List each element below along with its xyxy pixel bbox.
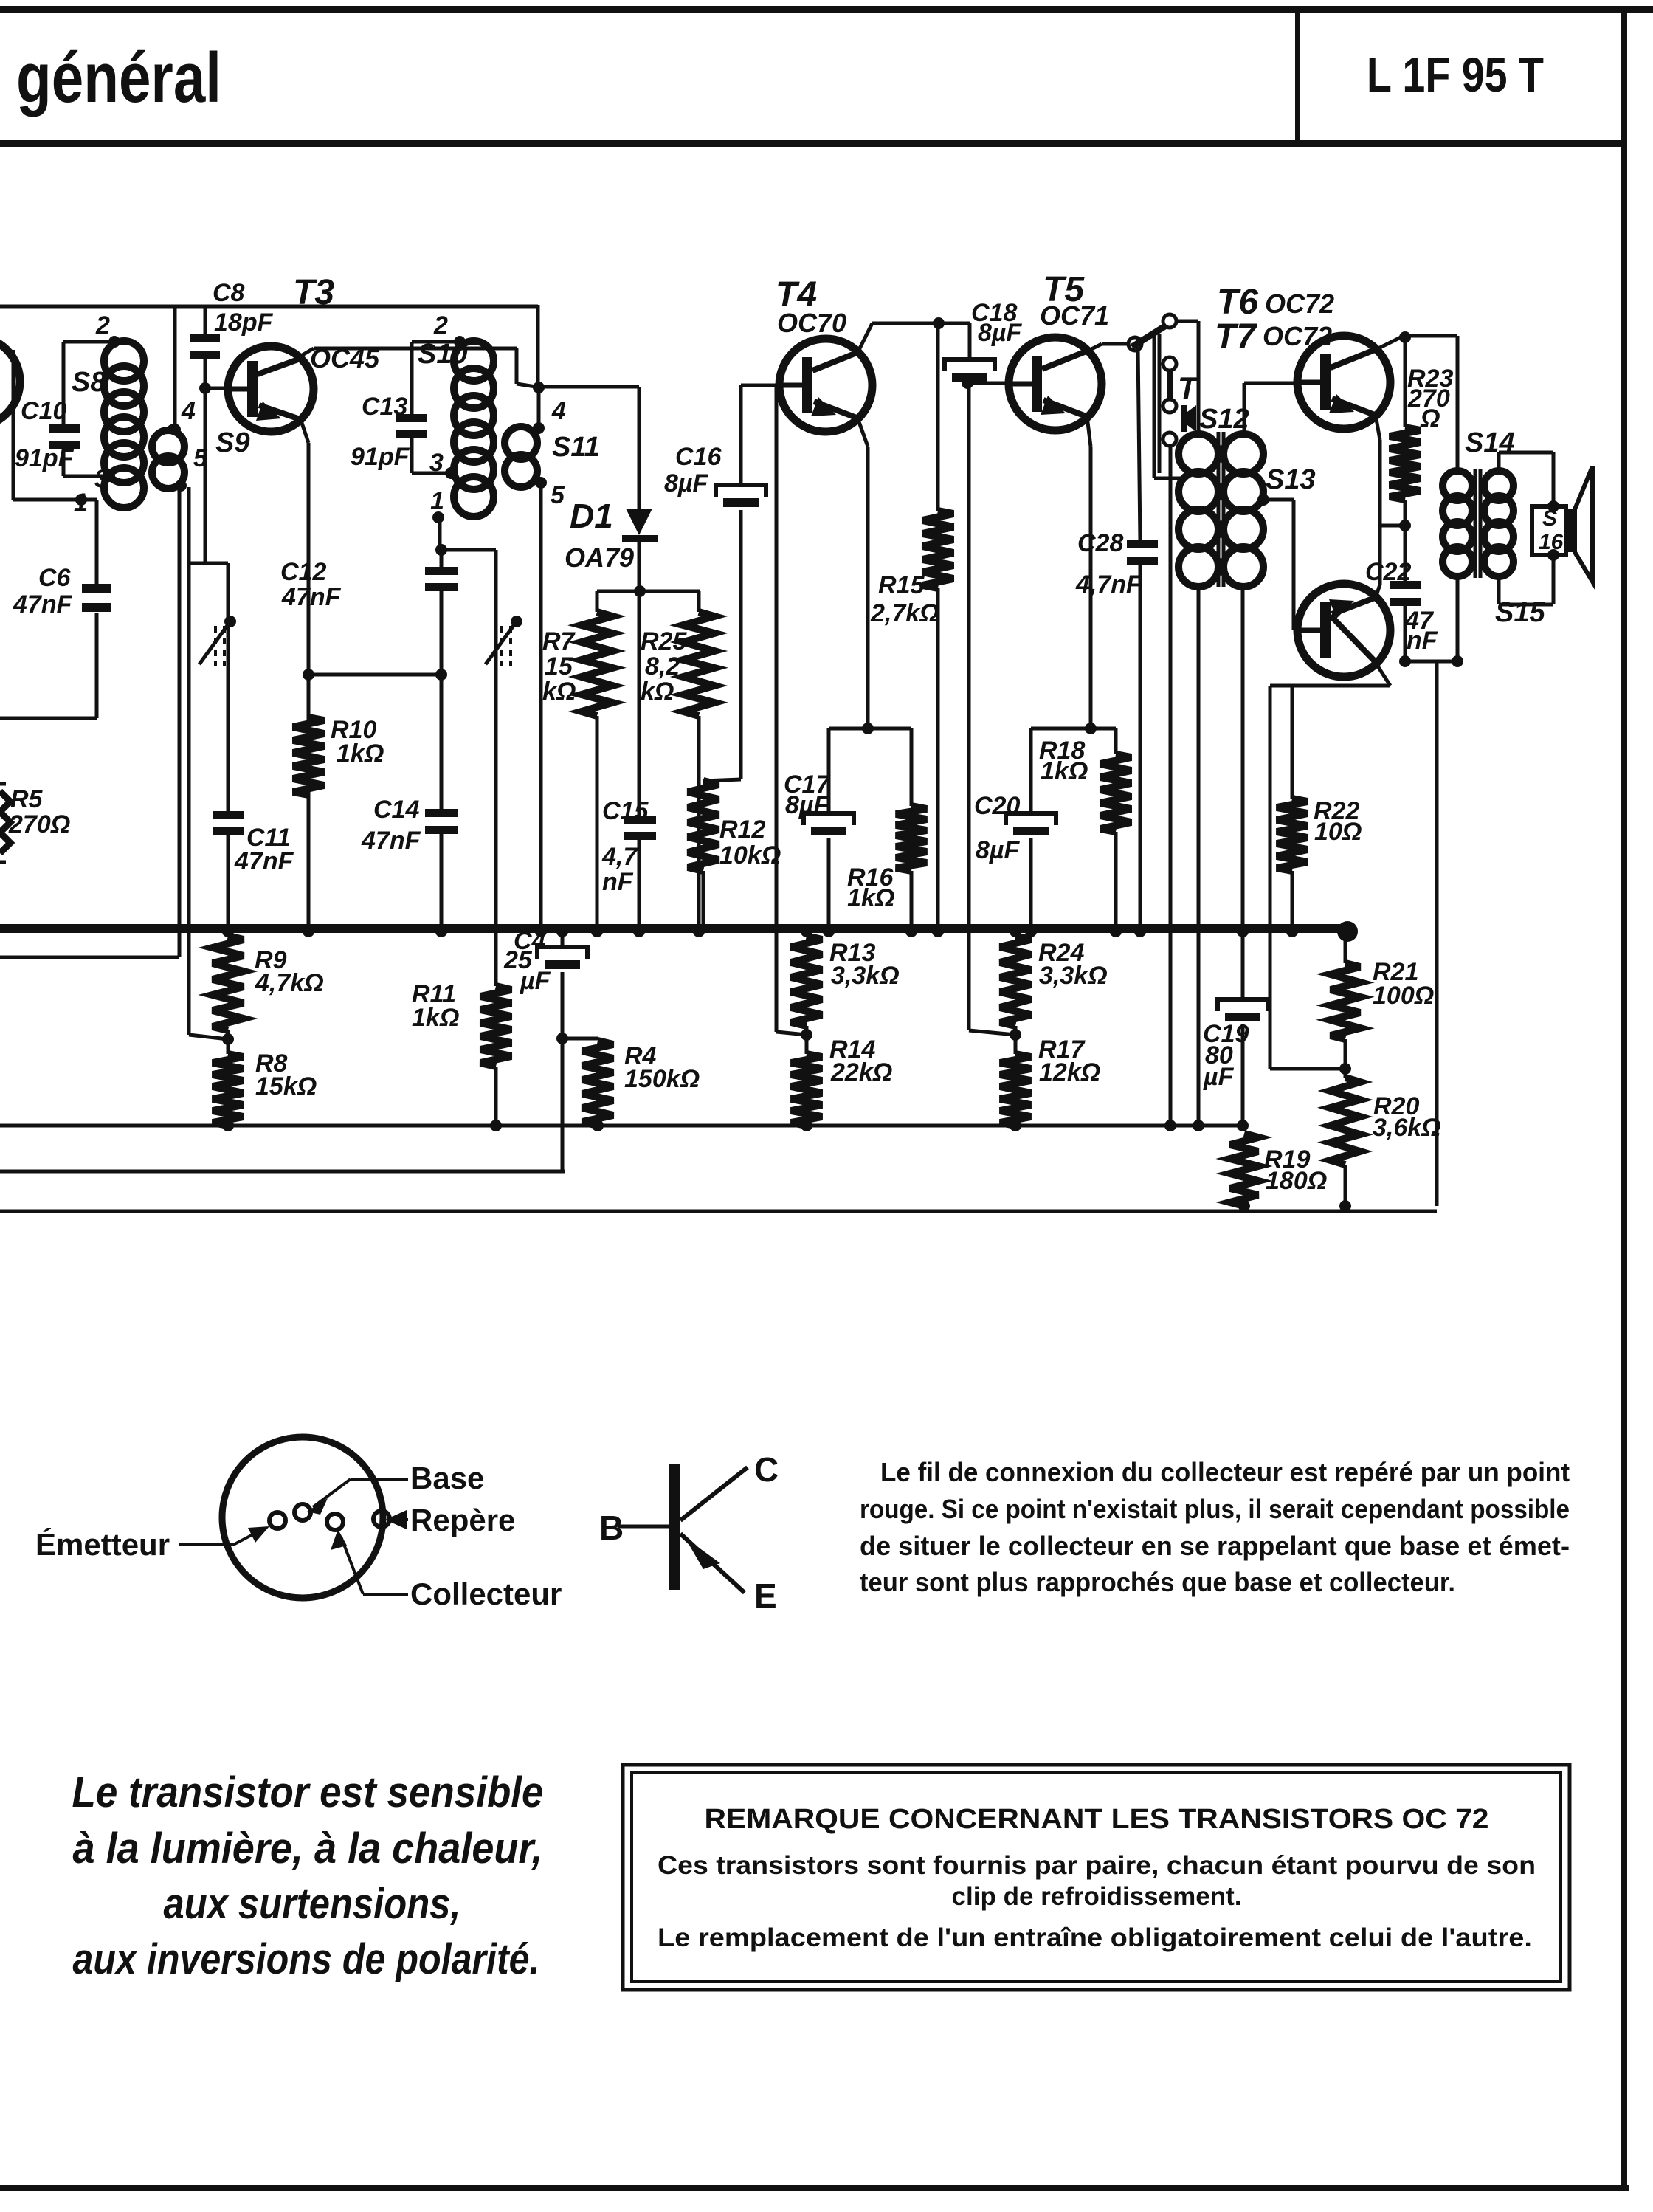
node R23 bottom junction: [1399, 520, 1411, 531]
wire C16 hook to R12: [703, 779, 741, 781]
label B: [599, 1509, 624, 1547]
label C10 value 91pF: [15, 444, 75, 472]
switch contact left: [1128, 337, 1142, 351]
resistor R17: [1000, 1054, 1031, 1126]
svg-text:C22: C22: [1365, 558, 1411, 586]
node S10 pin3: [445, 467, 457, 479]
label C10: [21, 397, 66, 425]
remark box: [623, 1765, 1570, 1990]
transistor T5: [1009, 337, 1102, 430]
wire S14 top lead: [1456, 336, 1460, 472]
svg-text:E: E: [754, 1577, 777, 1615]
node R23 top: [1399, 331, 1411, 343]
label T3: [293, 273, 334, 312]
wire C22 bottom: [1404, 606, 1407, 661]
resistor R14: [791, 1054, 822, 1126]
transformer S9 secondary coil: [152, 427, 184, 489]
wire R25 top lead: [697, 591, 701, 612]
node jack bottom: [1164, 1120, 1176, 1131]
label R18 value 1kOhm: [1041, 757, 1088, 785]
page bottom border: [0, 2185, 1629, 2191]
svg-text:µF: µF: [1203, 1063, 1235, 1091]
label S8 pin1: [74, 489, 88, 517]
label T5 type OC71: [1040, 300, 1109, 331]
svg-text:S11: S11: [552, 432, 600, 463]
jack contact bar: [1167, 370, 1173, 401]
symbol emitter lead: [680, 1534, 745, 1593]
node S8 pin2: [108, 336, 120, 348]
bottom rail 2: [0, 1170, 565, 1174]
wire S13 bottom down: [1241, 587, 1245, 999]
symbol collector lead: [680, 1467, 748, 1520]
svg-text:teur sont plus rapprochés que: teur sont plus rapprochés que base et co…: [860, 1567, 1455, 1597]
node C20 bus: [1025, 926, 1037, 937]
wire D1 bottom: [638, 542, 641, 591]
svg-text:4: 4: [551, 397, 566, 425]
svg-text:OC71: OC71: [1040, 300, 1109, 331]
label T4: [776, 275, 817, 314]
wire C20 bottom to bus: [1029, 838, 1033, 928]
transformer S13 secondary coil: [1224, 434, 1263, 587]
wire T4 emitter: [857, 418, 868, 728]
wire C15 bottom to bus: [638, 840, 641, 928]
transistor T3: [228, 346, 314, 432]
wire T6 collector: [1376, 336, 1457, 350]
label C18: [971, 299, 1017, 327]
resistor R25: [683, 612, 714, 716]
wire jack frame: [1154, 334, 1181, 478]
svg-text:Collecteur: Collecteur: [410, 1577, 562, 1611]
label T6 type OC72: [1265, 289, 1334, 319]
label R21: [1373, 958, 1418, 986]
wire AVC line: [189, 562, 228, 565]
label R20 value 3,6k: [1373, 1114, 1441, 1142]
paragraph line 3: [860, 1531, 1570, 1561]
node R25 bus: [693, 926, 705, 937]
label C19 value 80: [1205, 1041, 1233, 1069]
wire S10 box top: [412, 340, 460, 344]
wire T5 base divider drop: [967, 383, 971, 1030]
title general: [16, 38, 221, 117]
svg-text:180Ω: 180Ω: [1266, 1167, 1327, 1195]
transformer S10 primary coil: [454, 341, 494, 517]
wire R7 top lead: [596, 591, 599, 612]
svg-text:8,2: 8,2: [645, 652, 680, 681]
wire C16 top lead: [739, 385, 743, 485]
label C15 value nF: [602, 868, 634, 896]
model number L 1F 95 T: [1367, 47, 1544, 102]
resistor R19: [1230, 1134, 1258, 1206]
node S11 pin5 bus: [535, 926, 547, 937]
wire R23 top lead: [1404, 337, 1407, 427]
transformer S11 secondary coil: [505, 427, 537, 487]
label R11: [412, 980, 456, 1008]
label Repere: [410, 1503, 515, 1537]
label C11 value 47nF: [234, 847, 294, 875]
svg-text:10kΩ: 10kΩ: [719, 841, 781, 869]
wire R7 bottom to bus: [596, 716, 599, 928]
svg-text:8µF: 8µF: [664, 469, 708, 497]
wire C19 bottom: [1241, 1024, 1245, 1126]
wire C11 bottom to bus: [227, 835, 230, 928]
wire C4 to R4: [562, 1037, 598, 1041]
wire C4 bottom: [561, 972, 565, 1171]
jack contact b: [1163, 399, 1176, 413]
label R25: [641, 627, 687, 655]
node R4 bottom: [592, 1120, 604, 1131]
wire C11 top lead: [227, 563, 230, 813]
remark title: [705, 1804, 1489, 1835]
svg-text:Émetteur: Émetteur: [35, 1527, 170, 1562]
capacitor C8: [190, 334, 220, 359]
resistor R8: [213, 1054, 244, 1126]
wire C15 column: [638, 591, 641, 818]
label C4 value 25: [503, 946, 533, 974]
label C19: [1203, 1020, 1249, 1048]
node C19 bottom: [1237, 1120, 1249, 1131]
label D1: [570, 497, 613, 535]
node R14 bottom: [801, 1120, 812, 1131]
node R11 bottom: [490, 1120, 502, 1131]
header bottom rule: [0, 140, 1621, 147]
wire T5 collector: [1087, 344, 1129, 351]
resistor R15: [922, 511, 953, 588]
wire T4 base divider drop: [775, 385, 779, 1032]
svg-text:270Ω: 270Ω: [8, 810, 70, 838]
wire S14 bottom lead: [1456, 576, 1460, 661]
wire C17 top lead: [827, 728, 831, 813]
label C12 value 47nF: [281, 583, 342, 611]
svg-text:général: général: [16, 38, 221, 117]
header divider: [1295, 12, 1300, 145]
label R7: [542, 627, 576, 655]
node R13 R14 junction: [801, 1029, 812, 1041]
svg-text:1kΩ: 1kΩ: [1041, 757, 1088, 785]
transformer core S12 S13: [1218, 432, 1224, 587]
wire T4 collector: [857, 323, 970, 353]
capacitor C15: [624, 816, 656, 840]
wire R13 R14 link: [805, 1026, 809, 1054]
svg-text:C6: C6: [38, 564, 72, 592]
wire C8 top lead: [204, 306, 207, 334]
transformer core S14 S15: [1475, 469, 1480, 578]
loudspeaker horn: [1566, 466, 1592, 582]
trimmer core S8: [199, 616, 236, 666]
node T3 emitter bus: [303, 926, 314, 937]
node R19 bottom: [1238, 1200, 1250, 1212]
symbol transistor bar: [669, 1464, 680, 1590]
node R20 bottom: [1339, 1200, 1351, 1212]
jack contact c: [1163, 433, 1176, 446]
label R12: [719, 816, 765, 844]
svg-text:Le remplacement de l'un e: Le remplacement de l'un entraîne obligat…: [658, 1923, 1532, 1952]
pointer Collecteur: [331, 1529, 408, 1594]
svg-text:4: 4: [181, 397, 196, 425]
label R17 value 12k: [1039, 1058, 1100, 1086]
pointer Repere: [385, 1510, 408, 1529]
label R13: [829, 939, 875, 967]
label R4: [624, 1042, 657, 1070]
svg-text:clip de refroidissement.: clip de refroidissement.: [952, 1882, 1242, 1911]
wire C18 top lead: [968, 323, 972, 359]
label S9: [215, 427, 249, 458]
node R17 bottom: [1010, 1120, 1021, 1131]
label C11: [246, 824, 291, 852]
label R20: [1373, 1092, 1419, 1120]
capacitor C14: [425, 809, 458, 834]
wire S10 box left lower: [410, 438, 414, 473]
wire R18 top lead: [1114, 728, 1118, 754]
wire output bottom rail: [1405, 660, 1457, 664]
label S10 pin1: [430, 487, 444, 515]
node T5 base node: [962, 377, 973, 389]
wire S8 box left upper: [62, 342, 66, 427]
wire S13 tap to T7: [1263, 500, 1298, 630]
node S9 pin5: [175, 480, 187, 492]
label R21 value 100: [1373, 982, 1434, 1010]
svg-text:de situer le collecteur en se: de situer le collecteur en se rappelant …: [860, 1531, 1570, 1561]
label S10: [418, 339, 468, 370]
label R23: [1407, 365, 1453, 393]
svg-text:Base: Base: [410, 1461, 484, 1495]
paragraph line 2: [860, 1494, 1570, 1524]
label S11 pin5: [551, 481, 565, 509]
svg-text:T3: T3: [293, 273, 334, 312]
wire R18 C20 rail: [1031, 727, 1116, 731]
transistor T7: [1297, 584, 1390, 677]
node C15 bus: [633, 926, 645, 937]
node S11 pin4: [533, 422, 545, 434]
node S11 junction: [533, 382, 545, 393]
svg-text:C: C: [754, 1450, 779, 1489]
wire output down right: [1435, 661, 1439, 1206]
label S9 pin5: [193, 444, 208, 472]
label S8 pin3: [94, 465, 108, 493]
warning line 2: [73, 1825, 543, 1872]
capacitor C22: [1390, 581, 1421, 606]
resistor R21: [1331, 963, 1360, 1039]
svg-text:3,3kΩ: 3,3kΩ: [1039, 962, 1108, 990]
node S8 pin1: [75, 494, 87, 506]
svg-text:150kΩ: 150kΩ: [624, 1065, 700, 1093]
wire T7 emitter: [1270, 663, 1390, 686]
label C12: [280, 558, 326, 586]
node S12 bottom: [1193, 1120, 1204, 1131]
svg-text:R25: R25: [641, 627, 687, 655]
resistor R20: [1331, 1078, 1360, 1165]
jack contact a: [1163, 357, 1176, 371]
svg-text:rouge. Si ce point n'existait: rouge. Si ce point n'existait plus, il s…: [860, 1494, 1570, 1524]
node S14 bottom node: [1452, 655, 1463, 667]
svg-text:C8: C8: [213, 279, 245, 307]
resistor R12: [688, 781, 719, 871]
svg-text:C20: C20: [974, 792, 1020, 820]
label C14: [373, 796, 419, 824]
wire S9 pin5 down-right column: [187, 487, 191, 1035]
label R23 value Ohm: [1420, 404, 1440, 433]
label S14: [1465, 427, 1515, 458]
svg-text:à la lumière, à la chaleur,: à la lumière, à la chaleur,: [73, 1825, 543, 1872]
node S16 top: [1547, 500, 1559, 512]
label R10 value 1k: [337, 740, 384, 768]
svg-text:3,6kΩ: 3,6kΩ: [1373, 1114, 1441, 1142]
resistor R24: [1000, 936, 1031, 1026]
node R24 R17 junction: [1010, 1029, 1021, 1041]
remark line 2: [952, 1882, 1242, 1911]
wire T6 emitter to T7 collector: [1376, 415, 1380, 598]
capacitor C13: [396, 414, 427, 438]
wire S11 junction to pin4: [537, 387, 541, 428]
transformer S14 primary coil: [1443, 471, 1472, 576]
bottom rail 3: [0, 1210, 1437, 1213]
label S11 pin4: [551, 397, 566, 425]
wire hook to R24 R17 junction: [969, 1030, 1015, 1035]
wire C16 bottom lead: [739, 510, 743, 779]
node C22 bottom: [1399, 655, 1411, 667]
label S8 pin2: [95, 311, 110, 340]
transformer S12 primary coil: [1179, 434, 1218, 587]
label C8: [213, 279, 245, 307]
wire C17 bottom to bus: [827, 838, 831, 928]
pinout pin collector: [327, 1514, 343, 1530]
label R25 value kOhm: [641, 678, 674, 706]
svg-text:5: 5: [551, 481, 565, 509]
label T5: [1043, 270, 1085, 309]
svg-text:R5: R5: [10, 785, 44, 813]
wire S8 box left lower: [62, 450, 66, 476]
label C15: [602, 797, 649, 825]
label R11 value 1k: [412, 1004, 459, 1032]
svg-text:S9: S9: [215, 427, 249, 458]
label R8: [255, 1050, 288, 1078]
node S8 pin3: [103, 470, 115, 482]
label C22 value nF: [1407, 627, 1438, 655]
wire R11 top rail: [441, 548, 496, 552]
label C17 value 8uF: [785, 791, 829, 819]
label T6: [1217, 283, 1258, 322]
capacitor C28: [1127, 540, 1158, 565]
wire T3 collector: [301, 348, 536, 387]
label T7 type OC72: [1263, 321, 1332, 351]
wire C20 top lead: [1029, 728, 1033, 813]
svg-text:T: T: [1178, 371, 1199, 405]
node R16 bus: [905, 926, 917, 937]
label Base: [410, 1461, 484, 1495]
label R5: [10, 785, 44, 813]
svg-text:kΩ: kΩ: [542, 678, 576, 706]
label R15: [878, 571, 925, 599]
node R18 bus: [1110, 926, 1122, 937]
svg-text:C14: C14: [373, 796, 419, 824]
label R12 value 10kOhm: [719, 841, 781, 869]
wire left stub: [13, 350, 81, 500]
capacitor C17: [804, 813, 854, 835]
node C4 bus: [556, 926, 568, 937]
wire S13 top to T6 base: [1244, 383, 1297, 434]
wire S9 pin5 down-left column: [178, 486, 182, 957]
earphone symbol: [1181, 405, 1196, 432]
svg-text:4,7kΩ: 4,7kΩ: [255, 969, 324, 997]
pinout pin base: [294, 1504, 311, 1520]
resistor R22: [1277, 799, 1308, 871]
label T4 type OC70: [777, 308, 846, 338]
wire R16 top lead: [910, 728, 914, 806]
label R19: [1264, 1145, 1310, 1174]
label R8 value 15k: [255, 1072, 317, 1100]
resistor R18: [1100, 754, 1131, 832]
label S9 pin4: [181, 397, 196, 425]
svg-text:Le fil de connexion du collect: Le fil de connexion du collecteur est re…: [880, 1457, 1570, 1487]
capacitor C16: [716, 485, 766, 507]
wire T5 base: [967, 382, 1009, 385]
wire R23 bottom: [1404, 500, 1407, 526]
capacitor C4: [537, 947, 587, 969]
label C6: [38, 564, 72, 592]
loudspeaker S16 box: [1532, 506, 1566, 555]
wire R11 bottom: [494, 1067, 498, 1126]
wire C28 column top: [1138, 347, 1140, 542]
svg-text:aux surtensions,: aux surtensions,: [164, 1880, 461, 1928]
wire C14 bottom to bus: [440, 834, 444, 928]
resistor R23: [1390, 427, 1421, 500]
wire R15 top lead: [936, 323, 940, 511]
svg-text:C28: C28: [1077, 529, 1123, 557]
svg-text:OC72: OC72: [1263, 321, 1332, 351]
node C11 bus: [222, 926, 234, 937]
label R4 value 150k: [624, 1065, 700, 1093]
svg-text:2,7kΩ: 2,7kΩ: [870, 599, 939, 627]
svg-text:L 1F 95 T: L 1F 95 T: [1367, 47, 1544, 102]
node C17 bus: [823, 926, 835, 937]
wire T7 link to R23 node: [1380, 524, 1405, 528]
wire C12 top lead: [440, 550, 444, 569]
svg-text:8µF: 8µF: [978, 319, 1022, 347]
wire R12 bottom to bus: [702, 871, 705, 928]
diode D1: [622, 509, 658, 542]
wire S10 box bottom: [412, 472, 451, 475]
capacitor C20: [1006, 813, 1056, 835]
label C20 value 8uF: [976, 836, 1020, 864]
label R14 value 22k: [830, 1058, 892, 1086]
wire R16 bottom to bus: [910, 871, 914, 928]
label R18: [1039, 737, 1085, 765]
svg-text:D1: D1: [570, 497, 613, 535]
switch arm: [1132, 323, 1170, 347]
capacitor C18: [945, 359, 995, 382]
svg-text:R15: R15: [878, 571, 925, 599]
wire C12 to C14: [440, 591, 444, 811]
label C14 value 47nF: [361, 827, 421, 855]
label R24: [1038, 939, 1084, 967]
label R5 value 270: [8, 810, 70, 838]
label R25 value 8,2: [645, 652, 680, 681]
svg-text:kΩ: kΩ: [641, 678, 674, 706]
label Collecteur: [410, 1577, 562, 1611]
label D1 type OA79: [565, 542, 634, 573]
wire R11 column: [494, 550, 498, 986]
wire top rail corner down: [536, 305, 540, 387]
capacitor C10: [49, 424, 80, 449]
wire T3 emitter: [301, 421, 308, 928]
node T3 base: [199, 382, 232, 394]
wire left partial transistor T2: [0, 337, 20, 427]
svg-text:S12: S12: [1199, 404, 1249, 435]
node C14 bus: [435, 926, 447, 937]
resistor R4: [582, 1041, 613, 1126]
label C13 value 91pF: [351, 443, 410, 471]
node bus end: [1337, 921, 1358, 942]
svg-text:Ω: Ω: [1420, 404, 1440, 433]
